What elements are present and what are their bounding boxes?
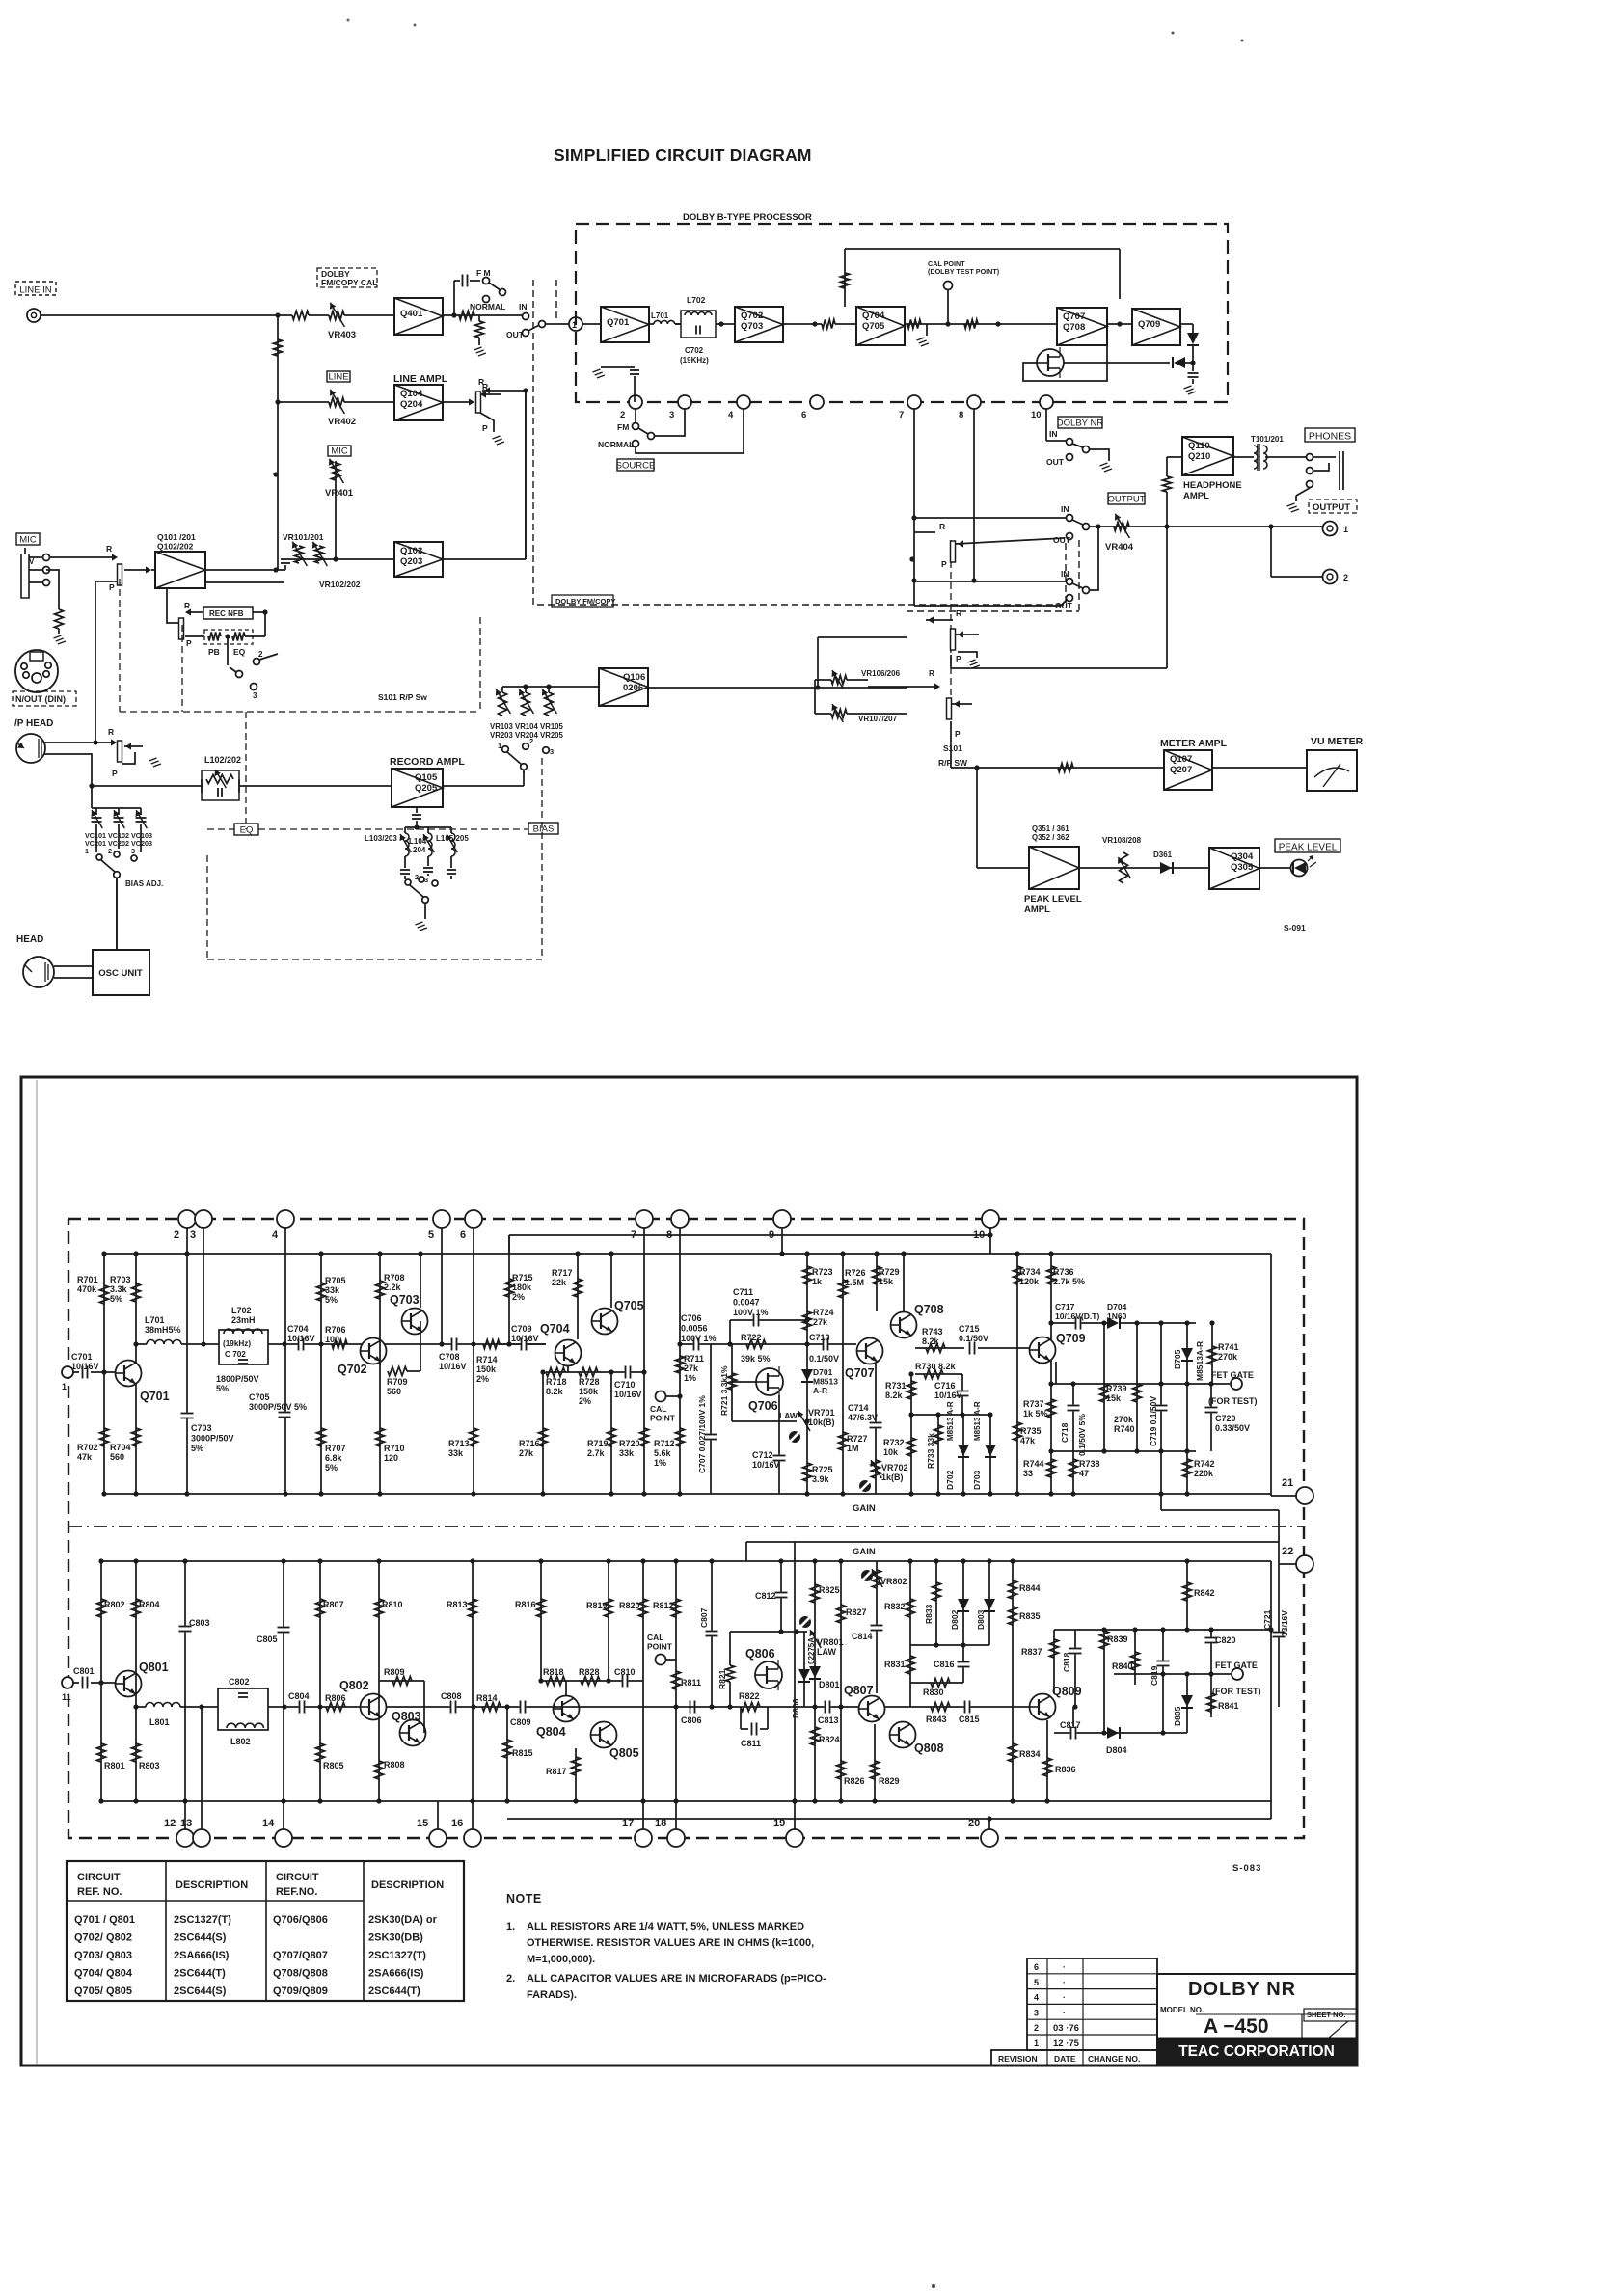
svg-text:Q205: Q205: [415, 783, 438, 794]
svg-text:Q703: Q703: [390, 1293, 420, 1307]
svg-text:C701: C701: [71, 1352, 93, 1362]
wire headphone feed: [951, 667, 1167, 669]
resistor R-bus: [274, 339, 283, 356]
svg-text:Q709: Q709: [1056, 1332, 1086, 1345]
svg-text:1: 1: [1343, 525, 1348, 534]
wire: [239, 785, 392, 787]
svg-text:1M: 1M: [847, 1444, 859, 1453]
svg-text:Q705: Q705: [614, 1299, 644, 1312]
svg-text:10/16V: 10/16V: [287, 1334, 315, 1343]
wire column R810: [378, 1561, 380, 1801]
svg-text:Q352 / 362: Q352 / 362: [1032, 833, 1069, 842]
resistor R819: [605, 1599, 613, 1617]
svg-text:TEAC CORPORATION: TEAC CORPORATION: [1178, 2043, 1335, 2060]
svg-text:5%: 5%: [191, 1444, 203, 1453]
svg-text:C812: C812: [755, 1591, 776, 1601]
resistor R743: [915, 1347, 964, 1349]
wire column R708: [379, 1254, 381, 1494]
svg-text:VR404: VR404: [1105, 542, 1134, 553]
resistor R813: [469, 1599, 477, 1617]
svg-text:M8513 A-R: M8513 A-R: [946, 1401, 955, 1441]
svg-text:P: P: [112, 769, 118, 778]
svg-text:10/16V: 10/16V: [511, 1334, 539, 1343]
wire column R705: [320, 1254, 322, 1494]
resistor R820: [639, 1599, 648, 1617]
resistor R824: [811, 1727, 820, 1745]
diode proc fet: [1174, 357, 1185, 368]
inductor L801: [136, 1706, 146, 1708]
svg-text:R809: R809: [384, 1667, 405, 1677]
svg-text:P: P: [186, 638, 192, 648]
transistor Q808: [890, 1722, 916, 1748]
capacitor C806: [690, 1701, 696, 1714]
amplifier Q106/Q206 playback amp: [599, 668, 648, 706]
svg-text:·: ·: [1063, 1993, 1066, 2003]
svg-text:L102/202: L102/202: [204, 755, 241, 765]
amplifier Q101/Q102 head amp: [155, 552, 205, 588]
svg-text:10/16V: 10/16V: [934, 1391, 962, 1400]
amplifier Q103/Q203 mic amp: [394, 542, 443, 577]
svg-text:VR701: VR701: [808, 1408, 835, 1418]
svg-text:R817: R817: [546, 1767, 567, 1776]
component PB EQ network: [204, 630, 253, 644]
svg-text:C718: C718: [1060, 1422, 1069, 1443]
svg-text:R: R: [956, 608, 961, 618]
svg-text:27k: 27k: [813, 1317, 828, 1327]
resistor R726: [839, 1280, 848, 1298]
svg-text:R726: R726: [845, 1268, 866, 1278]
svg-text:R832: R832: [884, 1602, 906, 1611]
resistor R818: [546, 1677, 565, 1686]
wire phones: [1265, 456, 1306, 458]
resistor R808: [375, 1761, 384, 1779]
wire signal 800a: [268, 1706, 546, 1708]
transistor Q707: [857, 1338, 883, 1364]
svg-text:270k: 270k: [1114, 1415, 1134, 1424]
resistor R714: [483, 1340, 500, 1349]
svg-text:AMPL: AMPL: [1024, 905, 1050, 915]
svg-text:R707: R707: [325, 1444, 346, 1453]
svg-text:V: V: [29, 557, 35, 566]
svg-text:POINT: POINT: [647, 1642, 673, 1652]
wire input 700: [62, 1366, 73, 1378]
svg-text:C802: C802: [229, 1677, 250, 1687]
capacitor C820: [1210, 1630, 1212, 1674]
wire signal 700b: [680, 1343, 856, 1345]
svg-text:DOLBY FM/COPY: DOLBY FM/COPY: [555, 597, 615, 606]
node terminal 3: [678, 395, 691, 409]
title block main: [1157, 1973, 1357, 1975]
svg-text:C707 0.027/100V 1%: C707 0.027/100V 1%: [697, 1395, 707, 1473]
svg-text:LAW: LAW: [817, 1647, 837, 1657]
wire interconnect 1599: [746, 1541, 1279, 1543]
pot VR107/207: [815, 713, 831, 715]
resistor R807: [316, 1599, 325, 1617]
capacitor C711: [730, 1319, 807, 1321]
svg-text:VR104: VR104: [515, 722, 539, 731]
capacitor C810: [622, 1675, 629, 1688]
svg-text:D701: D701: [813, 1367, 833, 1377]
svg-text:CIRCUIT: CIRCUIT: [77, 1872, 121, 1883]
svg-text:HEAD: HEAD: [16, 934, 43, 945]
wire column R836: [1046, 1720, 1048, 1801]
capacitor C805: [278, 1627, 290, 1634]
resistor R805: [316, 1743, 325, 1762]
wire column R726: [842, 1254, 844, 1494]
svg-text:2%: 2%: [579, 1396, 591, 1406]
node terminal 22: [1296, 1555, 1313, 1573]
svg-text:560: 560: [110, 1452, 124, 1462]
R/P head: [16, 734, 45, 763]
svg-text:A −450: A −450: [1204, 2015, 1269, 2038]
node FET GATE 800: [1114, 1673, 1231, 1675]
jack phones: [1307, 454, 1313, 461]
resistor R842: [1186, 1561, 1188, 1630]
resistor R809: [379, 1680, 424, 1682]
node terminal 15: [429, 1829, 447, 1847]
svg-text:R819: R819: [586, 1601, 608, 1610]
resistor proc series 3: [964, 320, 978, 329]
wire output meter feed: [950, 655, 952, 668]
svg-text:6: 6: [460, 1229, 466, 1241]
capacitor C814: [871, 1625, 883, 1632]
capacitor C704: [298, 1338, 305, 1351]
svg-text:P: P: [941, 559, 947, 569]
svg-text:8.2k: 8.2k: [922, 1337, 940, 1346]
svg-text:8: 8: [959, 410, 963, 420]
svg-text:Q707: Q707: [1063, 311, 1085, 322]
wire column R824: [814, 1707, 816, 1801]
inductor L701: [136, 1343, 147, 1345]
svg-text:LAW: LAW: [779, 1411, 798, 1420]
wire terminal16 stub: [472, 1561, 474, 1829]
ground: [1184, 386, 1192, 389]
svg-text:Q101 /201: Q101 /201: [157, 532, 196, 542]
svg-text:Q706: Q706: [748, 1399, 778, 1413]
svg-text:C814: C814: [852, 1632, 873, 1641]
svg-text:METER AMPL: METER AMPL: [1160, 738, 1228, 749]
svg-text:VR802: VR802: [880, 1577, 907, 1586]
svg-text:R740: R740: [1114, 1424, 1135, 1434]
capacitor C710: [625, 1366, 632, 1379]
pot VR105/VR205: [545, 692, 554, 716]
label DOLBY NR: [1058, 417, 1102, 428]
node terminal 2: [178, 1210, 196, 1228]
wire head to slider: [95, 581, 96, 743]
svg-text:5: 5: [428, 1229, 434, 1241]
svg-text:BIAS ADJ.: BIAS ADJ.: [125, 879, 163, 888]
svg-text:Q204: Q204: [400, 399, 423, 410]
svg-text:Q707/Q807: Q707/Q807: [273, 1950, 328, 1961]
svg-text:(19kHz): (19kHz): [223, 1339, 251, 1348]
table parts list: [67, 1861, 464, 2001]
svg-text:R710: R710: [384, 1444, 405, 1453]
svg-text:GAIN: GAIN: [853, 1547, 876, 1557]
svg-text:3: 3: [190, 1229, 196, 1241]
wire terminal9 stub: [781, 1228, 783, 1254]
svg-text:P: P: [109, 582, 115, 592]
wire collector rail 10: [509, 1234, 990, 1236]
svg-text:R717: R717: [552, 1268, 573, 1278]
svg-text:39k 5%: 39k 5%: [741, 1354, 771, 1364]
svg-text:1k: 1k: [812, 1277, 823, 1286]
pot VR104/VR204: [522, 692, 530, 716]
svg-text:Q803: Q803: [392, 1710, 421, 1723]
wire column R817: [575, 1748, 577, 1801]
svg-text:1: 1: [1034, 2039, 1039, 2048]
svg-text:C714: C714: [848, 1403, 869, 1413]
svg-text:(19KHz): (19KHz): [680, 356, 709, 365]
resistor R810: [375, 1599, 384, 1617]
resistor R731: [907, 1381, 916, 1399]
resistor R833: [935, 1561, 937, 1645]
coil L105/205: [450, 827, 452, 833]
diode D702: [962, 1415, 964, 1494]
svg-text:10k: 10k: [883, 1447, 899, 1457]
label DOLBY FM/COPY CAL: [317, 268, 377, 287]
wire top bus 700: [104, 1253, 1271, 1255]
wire terminal7 stub: [643, 1228, 645, 1494]
svg-text:2.7k: 2.7k: [587, 1448, 606, 1458]
svg-text:R719: R719: [587, 1439, 609, 1448]
svg-text:2SC1327(T): 2SC1327(T): [174, 1914, 231, 1926]
capacitor C701: [82, 1366, 89, 1379]
diode proc out: [1192, 324, 1194, 333]
wire S101 dashed boundary: [119, 579, 121, 712]
svg-text:R844: R844: [1019, 1583, 1041, 1593]
svg-text:11: 11: [62, 1692, 71, 1702]
wire column R719: [610, 1372, 612, 1494]
wire feedback 800: [730, 1631, 807, 1633]
svg-text:VR102/202: VR102/202: [319, 580, 361, 589]
wire record out: [443, 785, 524, 787]
svg-text:R711: R711: [684, 1354, 704, 1364]
wire: [1180, 323, 1193, 325]
transistor Q802: [361, 1694, 387, 1720]
capacitor C807: [711, 1561, 713, 1707]
resistor R723: [803, 1266, 812, 1284]
svg-text:R704: R704: [110, 1443, 131, 1452]
svg-text:12: 12: [164, 1818, 176, 1829]
svg-text:2SC644(T): 2SC644(T): [174, 1968, 226, 1980]
svg-text:DESCRIPTION: DESCRIPTION: [176, 1879, 248, 1891]
capacitor C809: [520, 1701, 527, 1714]
resistor R739: [1100, 1384, 1109, 1402]
svg-text:PHONES: PHONES: [1309, 431, 1351, 443]
svg-text:S-091: S-091: [1284, 923, 1306, 932]
svg-text:3000P/50V: 3000P/50V: [191, 1434, 234, 1444]
wire terminal13 stub: [201, 1707, 203, 1829]
resistor R835: [1009, 1607, 1017, 1625]
component REC NFB: [203, 607, 253, 619]
wire out lower path: [914, 605, 1061, 607]
svg-text:L802: L802: [230, 1737, 251, 1746]
transistor FET proc: [1037, 349, 1064, 376]
svg-text:Q708: Q708: [914, 1303, 944, 1316]
transistor Q705: [592, 1309, 618, 1335]
wire bottom bus 700: [104, 1493, 1271, 1495]
resistor R732: [907, 1438, 916, 1456]
svg-text:47/6.3V: 47/6.3V: [848, 1413, 878, 1422]
transistor Q708: [891, 1312, 917, 1338]
svg-text:10/16V: 10/16V: [439, 1362, 467, 1371]
transistor Q803: [400, 1720, 426, 1746]
svg-text:R708: R708: [384, 1273, 405, 1283]
wire out switch down: [525, 391, 527, 559]
svg-text:OUTPUT: OUTPUT: [1107, 495, 1145, 505]
svg-text:15k: 15k: [1106, 1393, 1122, 1403]
wire row 1706: [910, 1644, 989, 1646]
svg-text:R714: R714: [476, 1355, 498, 1364]
diode D806: [803, 1632, 805, 1707]
svg-text:R706: R706: [325, 1325, 346, 1335]
svg-text:C820: C820: [1215, 1635, 1236, 1645]
svg-text:C720: C720: [1215, 1414, 1236, 1423]
svg-text:CAL: CAL: [650, 1404, 666, 1414]
svg-text:0.0047: 0.0047: [733, 1298, 760, 1308]
svg-text:(FOR TEST): (FOR TEST): [1208, 1396, 1258, 1406]
pot VR402: [278, 401, 329, 403]
svg-text:5%: 5%: [216, 1384, 229, 1393]
svg-text:C806: C806: [681, 1715, 702, 1725]
wire top bus 800: [101, 1560, 1271, 1562]
svg-text:2.7k 5%: 2.7k 5%: [1053, 1277, 1085, 1286]
svg-text:L701: L701: [651, 311, 669, 320]
svg-text:S101: S101: [943, 743, 962, 753]
capacitor C714: [870, 1422, 882, 1429]
ground: [474, 347, 482, 350]
svg-text:R825: R825: [819, 1585, 840, 1595]
svg-text:R813: R813: [447, 1600, 468, 1609]
diode D703: [989, 1415, 991, 1494]
svg-text:N/OUT (DIN): N/OUT (DIN): [15, 694, 66, 704]
resistor R722: [746, 1340, 766, 1349]
wire column Q705: [610, 1254, 612, 1308]
svg-text:VR105: VR105: [540, 722, 564, 731]
svg-text:6: 6: [801, 410, 806, 420]
wire: [783, 323, 822, 325]
svg-text:6: 6: [1034, 1962, 1039, 1972]
svg-text:VR204: VR204: [515, 731, 539, 740]
svg-text:Q706/Q806: Q706/Q806: [273, 1914, 328, 1926]
wire column R717: [577, 1254, 579, 1339]
resistor R711: [676, 1356, 685, 1373]
svg-text:5: 5: [1034, 1978, 1039, 1987]
svg-text:L105/205: L105/205: [436, 834, 469, 843]
wire: [344, 401, 394, 403]
svg-text:33: 33: [1023, 1469, 1033, 1478]
svg-text:5%: 5%: [110, 1294, 122, 1304]
oscillator OSC UNIT: [93, 950, 149, 995]
coil L103/203: [404, 827, 406, 833]
svg-text:M=1,000,000).: M=1,000,000).: [527, 1954, 595, 1965]
wire: [344, 314, 394, 316]
capacitor C804: [299, 1701, 306, 1714]
resistor proc series 2: [907, 320, 921, 329]
capacitor C707: [710, 1344, 712, 1494]
svg-text:204: 204: [413, 846, 426, 854]
svg-text:R820: R820: [619, 1601, 640, 1610]
transistor Q704: [555, 1340, 582, 1366]
svg-text:R738: R738: [1079, 1459, 1100, 1469]
svg-text:REF. NO.: REF. NO.: [77, 1886, 122, 1898]
node terminal 14: [275, 1829, 292, 1847]
svg-text:L801: L801: [149, 1717, 170, 1727]
svg-text:REF.NO.: REF.NO.: [276, 1886, 317, 1898]
switch contact S101 out: [947, 698, 952, 719]
resistor R803: [132, 1743, 141, 1762]
pot VR801: [810, 1630, 821, 1648]
svg-text:Q702/ Q802: Q702/ Q802: [74, 1932, 132, 1944]
node terminal 5: [433, 1210, 450, 1228]
switch contact P head: [118, 741, 122, 762]
ground: [416, 922, 423, 925]
node terminal 18: [667, 1829, 685, 1847]
svg-text:38mH5%: 38mH5%: [145, 1325, 181, 1335]
capacitor C713: [823, 1338, 829, 1351]
svg-text:R724: R724: [813, 1308, 834, 1317]
svg-text:L103/203: L103/203: [365, 834, 397, 843]
svg-text:SHEET NO.: SHEET NO.: [1307, 2011, 1345, 2019]
svg-text:ALL RESISTORS ARE 1/4 WATT: ALL RESISTORS ARE 1/4 WATT, 5%, UNLESS M…: [527, 1921, 804, 1932]
node terminal 4: [277, 1210, 294, 1228]
scan specks: [347, 19, 350, 22]
svg-text:R703: R703: [110, 1275, 131, 1284]
resistor R827: [837, 1605, 846, 1623]
svg-text:0206: 0206: [623, 683, 643, 693]
svg-text:R731: R731: [885, 1381, 907, 1391]
svg-text:CIRCUIT: CIRCUIT: [276, 1872, 319, 1883]
label DOLBY FM/COPY: [552, 595, 613, 607]
svg-text:D805: D805: [1173, 1706, 1182, 1726]
wire row 1797: [1054, 1732, 1187, 1734]
pot VR103/VR203: [499, 692, 507, 716]
svg-text:C801: C801: [73, 1666, 95, 1676]
amplifier Q401: [394, 298, 443, 335]
wire column R807: [319, 1561, 321, 1801]
resistor R703: [132, 1283, 141, 1302]
resistor R830: [910, 1682, 963, 1684]
resistor R843: [931, 1703, 950, 1712]
pot VR404: [1098, 526, 1325, 527]
svg-text:Q809: Q809: [1052, 1685, 1082, 1698]
svg-text:R736: R736: [1053, 1267, 1074, 1277]
resistor R821: [729, 1682, 731, 1707]
wire law loop: [732, 1420, 797, 1422]
svg-text:2: 2: [258, 650, 263, 659]
label MIC input: [16, 533, 40, 545]
wire row 1467: [911, 1414, 990, 1416]
wire column R819: [608, 1561, 609, 1681]
wire Q101 feedback: [167, 588, 178, 623]
svg-text:Q107: Q107: [1170, 754, 1192, 765]
svg-text:33/16V: 33/16V: [1280, 1610, 1289, 1636]
svg-text:R812: R812: [653, 1601, 674, 1610]
resistor R717: [574, 1279, 582, 1297]
svg-text:2: 2: [1343, 573, 1348, 582]
wire terminal6 stub: [473, 1228, 474, 1494]
pot VR701: [798, 1411, 811, 1431]
svg-text:270k: 270k: [1218, 1352, 1238, 1362]
wire rp dashed right: [950, 540, 952, 716]
resistor R832: [907, 1599, 915, 1617]
svg-text:OUT: OUT: [1053, 535, 1071, 545]
svg-text:VR801: VR801: [817, 1637, 844, 1647]
svg-text:M8513A-R: M8513A-R: [1195, 1341, 1204, 1381]
svg-text:D704: D704: [1107, 1302, 1127, 1311]
capacitor C815: [964, 1701, 971, 1714]
wire column Q703: [420, 1254, 421, 1308]
